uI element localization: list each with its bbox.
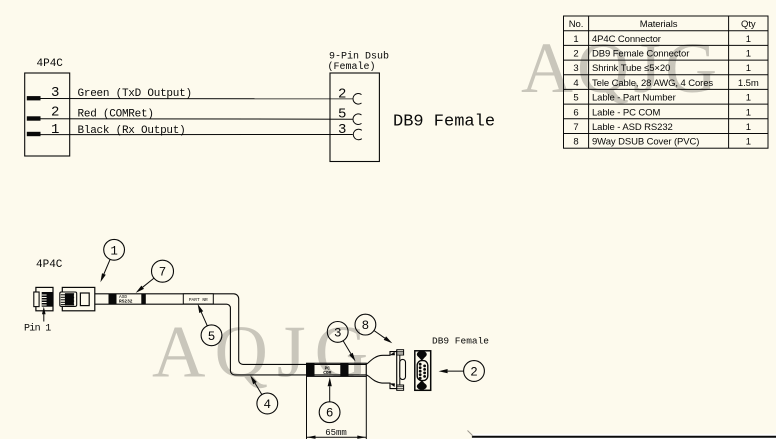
svg-text:4: 4 xyxy=(264,398,272,412)
svg-text:1.5m: 1.5m xyxy=(738,78,759,89)
svg-text:PART NR: PART NR xyxy=(189,297,208,303)
svg-text:Shrink Tube ≤5×20: Shrink Tube ≤5×20 xyxy=(592,63,670,74)
svg-text:1: 1 xyxy=(746,107,751,118)
table header row xyxy=(569,19,756,30)
callout circle 3 xyxy=(327,322,348,343)
svg-text:Lable - PC COM: Lable - PC COM xyxy=(592,107,660,118)
svg-text:DB9 Female Connector: DB9 Female Connector xyxy=(592,49,689,60)
svg-text:DB9 Female: DB9 Female xyxy=(432,336,489,347)
svg-text:7: 7 xyxy=(573,122,578,133)
callout 2 leader xyxy=(448,370,464,372)
side view contact block xyxy=(65,293,74,305)
svg-text:1: 1 xyxy=(746,49,751,60)
svg-text:Lable - ASD RS232: Lable - ASD RS232 xyxy=(592,122,673,133)
PC COM label black band right xyxy=(340,363,348,376)
callout circle 4 xyxy=(257,393,278,414)
svg-text:5: 5 xyxy=(338,107,346,123)
side view contact housing xyxy=(60,292,77,306)
svg-text:4P4C: 4P4C xyxy=(36,259,63,271)
callout circle 2 xyxy=(464,361,485,382)
callout 6 leader xyxy=(329,386,331,402)
svg-text:5: 5 xyxy=(573,93,578,104)
DB9 screw hole bottom xyxy=(417,383,427,390)
svg-text:3: 3 xyxy=(334,326,342,340)
svg-text:Black (Rx Output): Black (Rx Output) xyxy=(78,125,186,137)
4P4C front contact block xyxy=(42,292,53,307)
svg-text:1: 1 xyxy=(746,137,751,148)
svg-text:65mm: 65mm xyxy=(325,428,347,438)
svg-text:1: 1 xyxy=(746,34,751,45)
svg-text:1: 1 xyxy=(746,63,751,74)
cable inner edge xyxy=(95,304,367,375)
svg-text:9-Pin Dsub: 9-Pin Dsub xyxy=(329,51,389,63)
svg-text:4P4C: 4P4C xyxy=(37,58,64,70)
DB9 socket pin 3 xyxy=(353,129,362,140)
PC COM label black band left xyxy=(307,363,315,376)
4P4C connector box J1 xyxy=(25,73,70,156)
DB9 pins xyxy=(419,363,426,380)
svg-text:6: 6 xyxy=(326,407,334,421)
black wedge bottom xyxy=(390,383,395,387)
D-shell mating face xyxy=(400,359,406,379)
DB9 socket pin 2 xyxy=(353,94,362,105)
callout circle 6 xyxy=(319,402,340,423)
wire black Rx (pin1 to DB9 pin3) xyxy=(41,134,353,136)
pin 1 leader line xyxy=(43,314,45,322)
callout circle 5 xyxy=(201,325,222,346)
callout circle 1 xyxy=(104,239,125,260)
svg-text:8: 8 xyxy=(573,137,578,148)
callout circle 7 xyxy=(152,260,174,282)
svg-text:6: 6 xyxy=(573,107,578,118)
side view contact comb xyxy=(61,295,66,305)
svg-text:Green (TxD Output): Green (TxD Output) xyxy=(78,88,192,100)
table qty column xyxy=(738,34,759,148)
svg-text:COM: COM xyxy=(323,370,331,376)
svg-text:4: 4 xyxy=(573,78,578,89)
side view window xyxy=(80,293,89,306)
svg-text:3: 3 xyxy=(338,122,346,138)
svg-text:2: 2 xyxy=(573,49,578,60)
svg-text:7: 7 xyxy=(159,266,167,280)
svg-text:2: 2 xyxy=(338,87,346,103)
DB9 socket pin 5 xyxy=(353,114,362,125)
svg-text:1: 1 xyxy=(746,93,751,104)
4P4C plug front view xyxy=(36,287,53,310)
svg-text:Tele Cable, 28 AWG, 4 Cores: Tele Cable, 28 AWG, 4 Cores xyxy=(592,78,713,89)
callout circle 8 xyxy=(355,314,376,335)
4P4C plug side view xyxy=(62,287,95,310)
svg-text:Materials: Materials xyxy=(640,19,678,30)
svg-text:Red (COMRet): Red (COMRet) xyxy=(78,108,154,120)
boot flange xyxy=(397,351,400,391)
pin bar 1 xyxy=(27,132,41,136)
svg-text:RS232: RS232 xyxy=(119,299,133,305)
svg-text:4P4C Connector: 4P4C Connector xyxy=(592,34,661,45)
svg-text:No.: No. xyxy=(569,19,583,30)
DB9 D-shape xyxy=(417,361,428,381)
svg-text:9Way DSUB Cover (PVC): 9Way DSUB Cover (PVC) xyxy=(592,137,699,148)
wire green TxD (pin3 to DB9 pin2) xyxy=(41,98,353,100)
svg-text:Qty: Qty xyxy=(741,19,756,30)
title block border bottom right xyxy=(472,434,776,439)
svg-text:2: 2 xyxy=(470,366,478,380)
table materials column xyxy=(592,34,713,148)
svg-text:3: 3 xyxy=(573,63,578,74)
callout 1 leader xyxy=(104,259,110,274)
svg-text:8: 8 xyxy=(362,319,370,333)
pin bar 3 xyxy=(27,96,41,100)
side view contact dashes xyxy=(74,295,76,304)
ASD RS232 label black band right xyxy=(141,294,146,304)
svg-text:(Female): (Female) xyxy=(328,61,376,73)
pin bar 2 xyxy=(27,116,41,120)
svg-text:1: 1 xyxy=(746,122,751,133)
svg-text:DB9 Female: DB9 Female xyxy=(393,113,495,132)
dimension extension line left xyxy=(306,376,308,439)
4P4C front latch tab xyxy=(34,292,39,307)
table row numbers xyxy=(573,34,578,148)
4P4C front contact comb xyxy=(42,295,47,305)
svg-text:5: 5 xyxy=(208,330,216,344)
DB9 connector box (schematic) xyxy=(330,73,379,162)
svg-text:Lable - Part Number: Lable - Part Number xyxy=(592,93,676,104)
DB9 hood / boot side view xyxy=(366,352,397,389)
materials table grid xyxy=(564,16,769,148)
DB9 female front view outer xyxy=(415,351,431,391)
dimension line 65mm xyxy=(307,436,367,438)
callout 5 leader xyxy=(201,312,207,326)
black wedge top xyxy=(390,352,395,355)
cable outer edge xyxy=(95,294,367,365)
svg-text:1: 1 xyxy=(573,34,578,45)
callout 8 leader xyxy=(374,331,385,339)
PART NR label box xyxy=(183,294,213,304)
callout 4 leader xyxy=(255,383,262,395)
wire red COMRet (pin2 to DB9 pin5) xyxy=(41,118,353,121)
bottom thumbscrew xyxy=(397,385,404,390)
ASD RS232 label black band left xyxy=(109,294,117,304)
DB9 screw hole top xyxy=(417,351,427,358)
svg-text:1: 1 xyxy=(51,122,59,138)
svg-text:1: 1 xyxy=(110,244,118,258)
svg-text:Pin 1: Pin 1 xyxy=(24,323,51,335)
dimension extension line right xyxy=(365,376,367,439)
pin 1 leader arrowhead xyxy=(42,307,46,315)
callout 7 leader xyxy=(143,278,154,287)
top thumbscrew xyxy=(397,350,404,355)
shrink tube outline xyxy=(307,363,367,376)
callout 3 leader xyxy=(343,341,351,354)
